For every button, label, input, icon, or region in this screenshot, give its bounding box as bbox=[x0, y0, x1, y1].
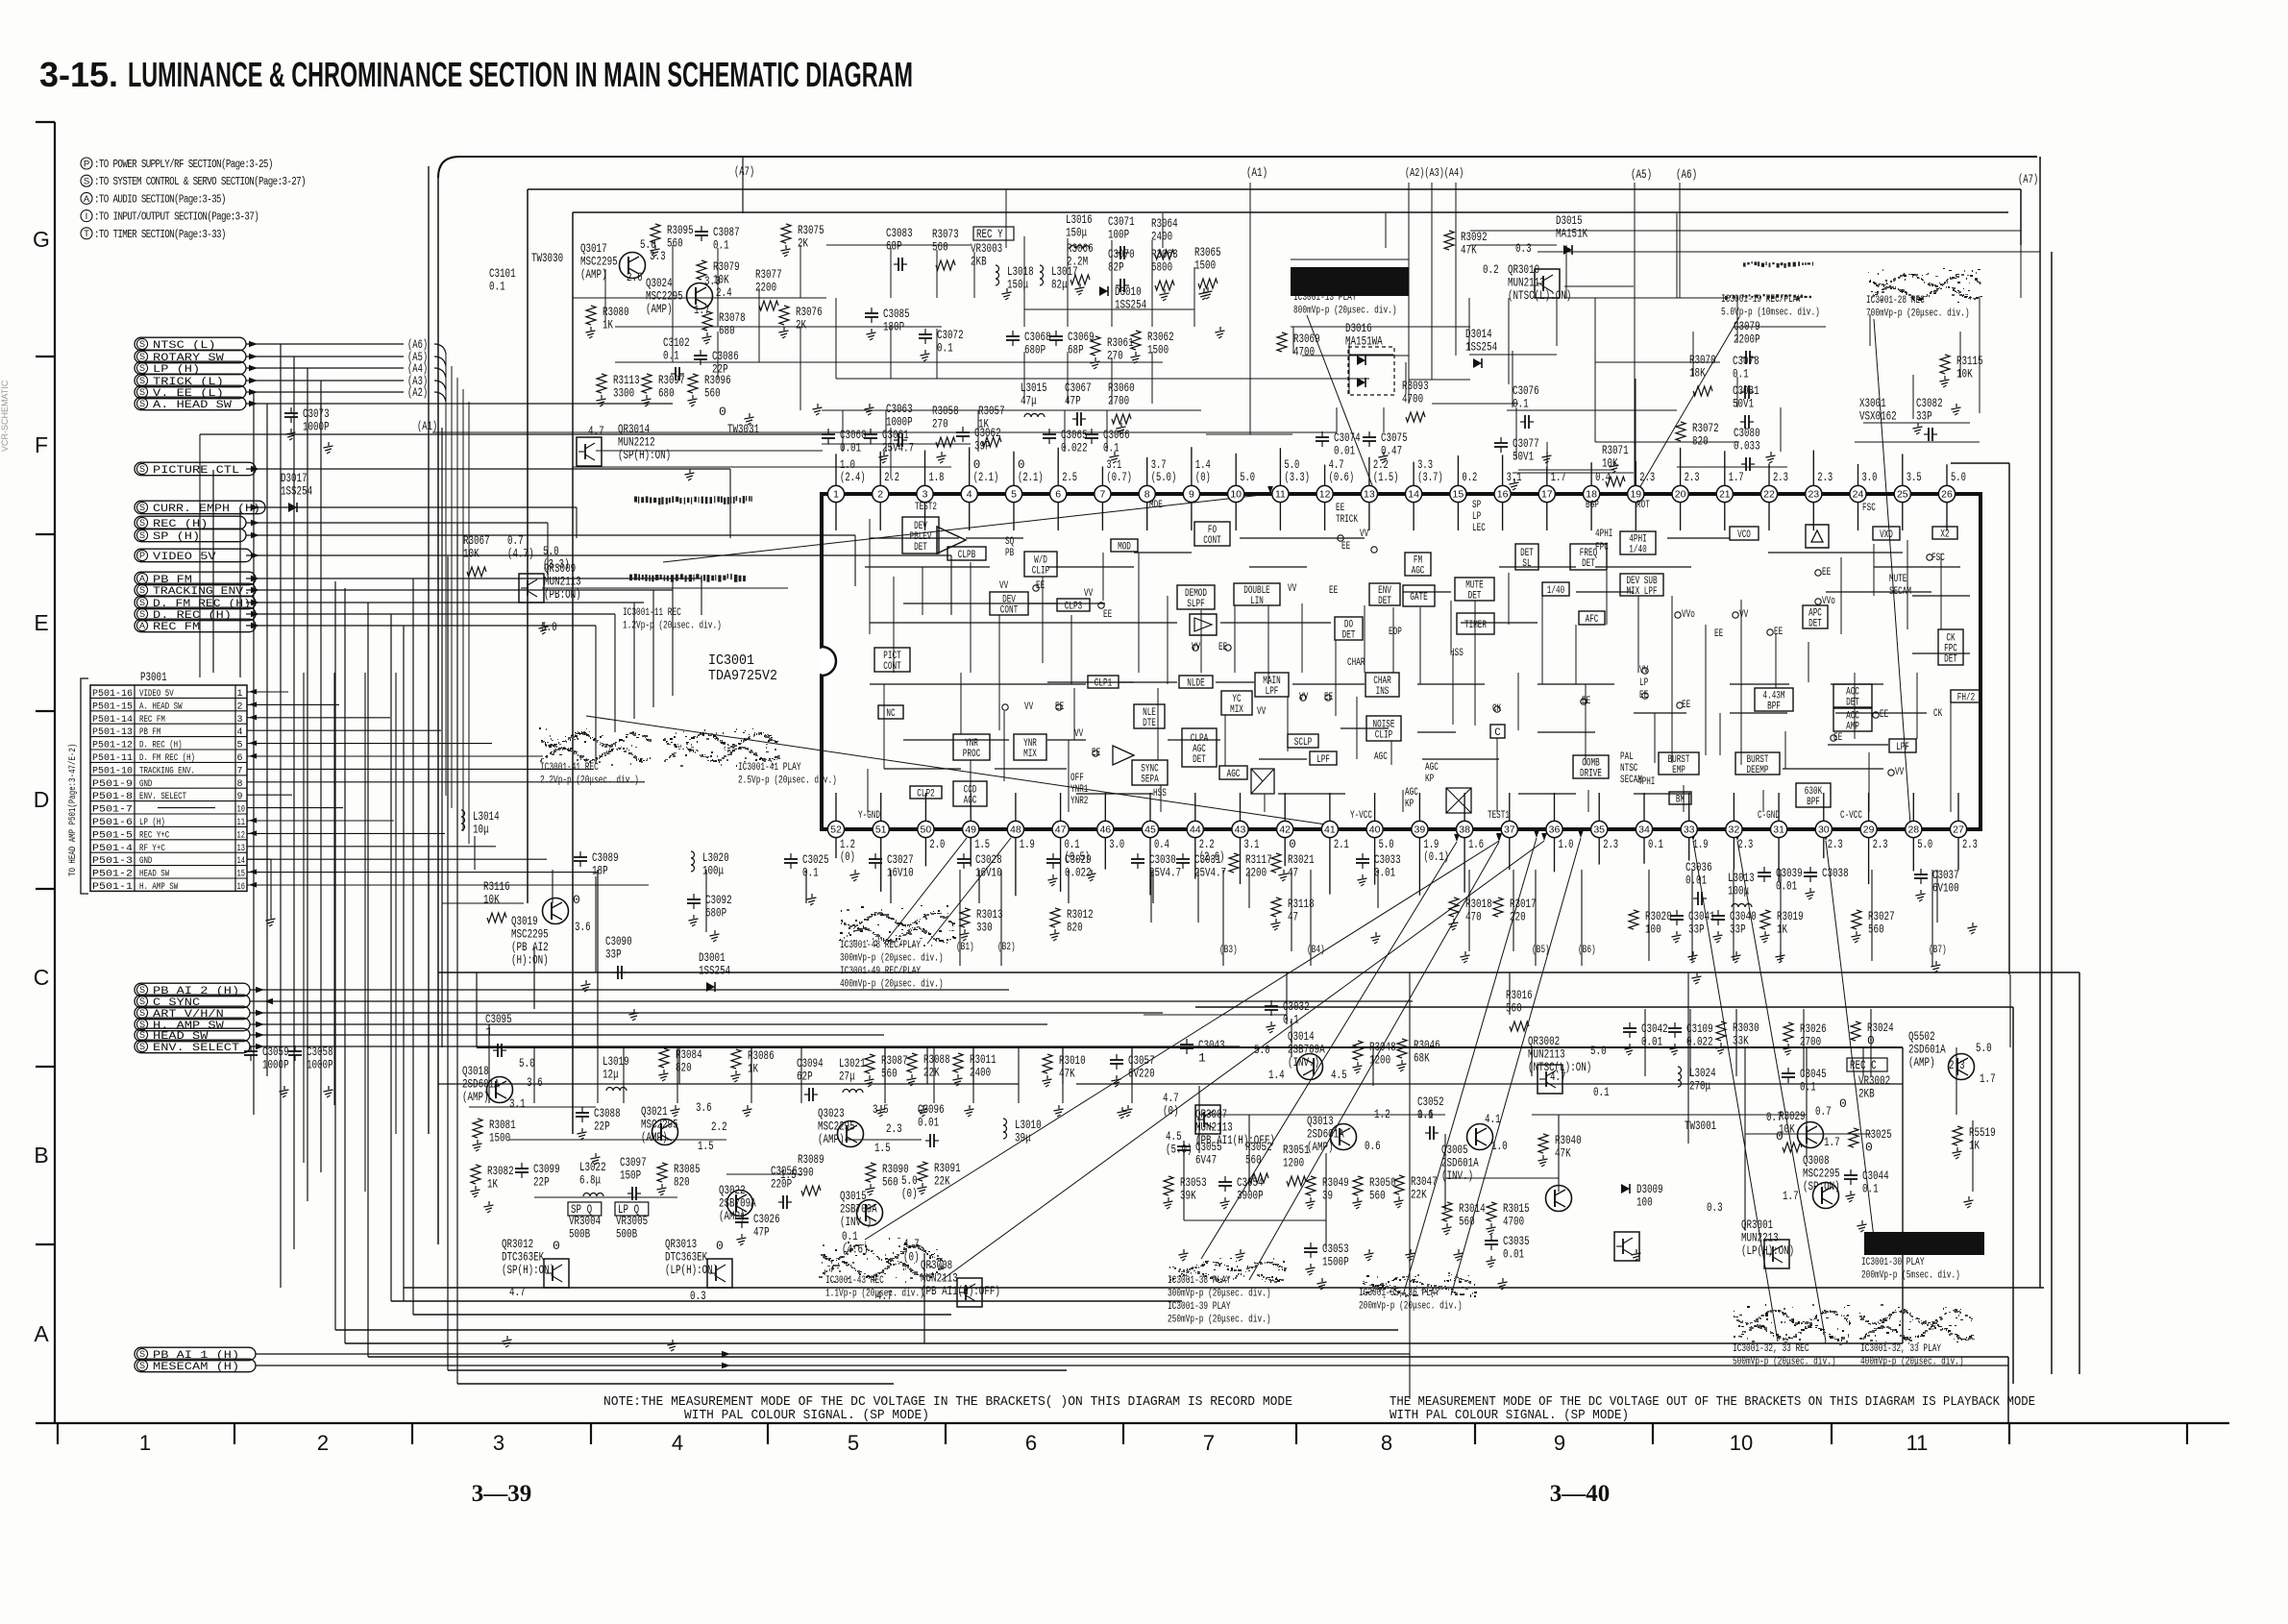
svg-text:68P: 68P bbox=[1068, 343, 1084, 357]
svg-text:CK: CK bbox=[1933, 708, 1943, 720]
svg-text:5: 5 bbox=[1011, 489, 1017, 501]
svg-text:560: 560 bbox=[1868, 923, 1884, 937]
svg-text:VV: VV bbox=[999, 580, 1009, 592]
svg-text:ROT: ROT bbox=[1636, 500, 1650, 511]
svg-text:820: 820 bbox=[1067, 921, 1083, 935]
svg-text:AGC: AGC bbox=[1193, 744, 1206, 755]
svg-text:25: 25 bbox=[1897, 489, 1908, 501]
svg-text:0: 0 bbox=[553, 1239, 560, 1253]
svg-text:2KB: 2KB bbox=[1858, 1087, 1875, 1101]
svg-text:2.3: 2.3 bbox=[1737, 838, 1753, 851]
svg-text:2.5: 2.5 bbox=[1062, 471, 1077, 484]
svg-text:(3.7): (3.7) bbox=[1417, 471, 1443, 484]
svg-text:62P: 62P bbox=[797, 1070, 813, 1084]
svg-text:IC3001-48 REC/PLAY: IC3001-48 REC/PLAY bbox=[840, 940, 921, 951]
svg-text:6V100: 6V100 bbox=[1932, 881, 1959, 896]
svg-text:(B6): (B6) bbox=[1578, 945, 1596, 956]
svg-text:47: 47 bbox=[1288, 910, 1298, 924]
svg-text:CLIP: CLIP bbox=[1032, 566, 1049, 578]
svg-text:OFF: OFF bbox=[1070, 773, 1084, 784]
svg-text:1.6: 1.6 bbox=[1468, 838, 1484, 851]
svg-text:2700: 2700 bbox=[1108, 394, 1129, 408]
svg-text:REC Y: REC Y bbox=[976, 227, 1003, 241]
svg-text:4: 4 bbox=[672, 1431, 683, 1455]
svg-text:S: S bbox=[139, 376, 145, 385]
svg-text:6V47: 6V47 bbox=[1195, 1153, 1217, 1168]
svg-text:180P: 180P bbox=[883, 320, 904, 334]
svg-text:68P: 68P bbox=[886, 239, 902, 254]
svg-text:2200: 2200 bbox=[755, 281, 776, 295]
svg-text:33P: 33P bbox=[1730, 923, 1746, 937]
svg-text:EE: EE bbox=[1055, 701, 1064, 713]
svg-text:EE: EE bbox=[1092, 748, 1100, 759]
svg-text:CLP3: CLP3 bbox=[1065, 602, 1082, 613]
svg-text:(LP(H):ON): (LP(H):ON) bbox=[665, 1263, 718, 1277]
svg-text:ART V/H/N: ART V/H/N bbox=[153, 1009, 224, 1021]
svg-text:3.6: 3.6 bbox=[696, 1100, 712, 1115]
svg-text:1: 1 bbox=[1198, 1051, 1206, 1066]
svg-text:0.1: 0.1 bbox=[1862, 1182, 1879, 1196]
svg-text:VV: VV bbox=[1288, 583, 1297, 595]
svg-text:EMP: EMP bbox=[1672, 765, 1685, 776]
svg-text:36: 36 bbox=[1549, 824, 1561, 836]
svg-text:38: 38 bbox=[1459, 824, 1470, 836]
svg-text:3.6: 3.6 bbox=[527, 1075, 543, 1090]
svg-text:IC3001-41 PLAY: IC3001-41 PLAY bbox=[738, 762, 801, 774]
svg-text:MUTE: MUTE bbox=[1465, 579, 1483, 591]
svg-text:4700: 4700 bbox=[1293, 345, 1315, 359]
svg-text:AGC: AGC bbox=[1405, 787, 1418, 799]
svg-text:820: 820 bbox=[1692, 434, 1709, 449]
svg-text:44: 44 bbox=[1190, 824, 1201, 836]
svg-text:S: S bbox=[139, 530, 145, 540]
svg-text:270: 270 bbox=[1107, 349, 1123, 363]
svg-text:FSC: FSC bbox=[1862, 503, 1876, 514]
svg-text:S: S bbox=[139, 1030, 145, 1040]
svg-text:2400: 2400 bbox=[970, 1066, 991, 1080]
svg-text:VV: VV bbox=[1024, 701, 1034, 713]
svg-text:47P: 47P bbox=[753, 1225, 770, 1240]
svg-text:11: 11 bbox=[1275, 489, 1286, 501]
svg-text:0.1: 0.1 bbox=[1065, 838, 1080, 851]
svg-text:(5.0): (5.0) bbox=[1166, 1143, 1193, 1157]
svg-text:PB FM: PB FM bbox=[153, 575, 192, 586]
svg-text:(0): (0) bbox=[1163, 1104, 1179, 1119]
svg-text:5.0: 5.0 bbox=[1590, 1044, 1607, 1058]
svg-text:12μ: 12μ bbox=[603, 1068, 619, 1082]
svg-text:2: 2 bbox=[317, 1431, 329, 1455]
svg-text:BGP: BGP bbox=[1586, 500, 1599, 511]
svg-text:(SP(H):ON): (SP(H):ON) bbox=[502, 1263, 554, 1277]
svg-text:CONT: CONT bbox=[1000, 605, 1019, 617]
svg-text:EE: EE bbox=[1036, 580, 1045, 592]
svg-text:1.2: 1.2 bbox=[1374, 1107, 1390, 1121]
svg-text:8: 8 bbox=[1144, 489, 1150, 501]
svg-text:(3.3): (3.3) bbox=[543, 557, 570, 572]
svg-text:560: 560 bbox=[1459, 1215, 1475, 1229]
svg-text:YNR2: YNR2 bbox=[1070, 796, 1088, 807]
svg-text:6.8μ: 6.8μ bbox=[579, 1173, 601, 1188]
svg-text:4PHI: 4PHI bbox=[1629, 533, 1646, 545]
svg-text:10K: 10K bbox=[483, 893, 500, 907]
svg-text:(INV.): (INV.) bbox=[1441, 1169, 1473, 1183]
svg-text:270μ: 270μ bbox=[1689, 1079, 1710, 1094]
svg-text:0.01: 0.01 bbox=[1374, 866, 1395, 880]
svg-text:0.1: 0.1 bbox=[802, 866, 819, 880]
svg-text:S: S bbox=[139, 598, 145, 607]
svg-text:150μ: 150μ bbox=[1066, 226, 1087, 240]
svg-text:EE: EE bbox=[1329, 585, 1338, 597]
svg-text:D. REC (H): D. REC (H) bbox=[153, 610, 232, 622]
svg-text:3.3: 3.3 bbox=[1417, 458, 1433, 472]
svg-text:3—39: 3—39 bbox=[472, 1481, 532, 1507]
svg-text:250mVp-p (20μsec. div.): 250mVp-p (20μsec. div.) bbox=[1168, 1315, 1271, 1326]
svg-text:S: S bbox=[139, 399, 145, 408]
svg-text:150P: 150P bbox=[620, 1169, 641, 1183]
svg-text:(B3): (B3) bbox=[1219, 945, 1238, 956]
svg-text:LP: LP bbox=[1472, 511, 1481, 523]
svg-text:68K: 68K bbox=[1414, 1051, 1430, 1066]
svg-text:PB: PB bbox=[1005, 548, 1015, 559]
svg-text:16: 16 bbox=[237, 882, 246, 893]
svg-text:DET: DET bbox=[1342, 630, 1356, 642]
svg-text:EE: EE bbox=[1639, 690, 1648, 701]
svg-text:29: 29 bbox=[1863, 824, 1875, 836]
svg-text:GATE: GATE bbox=[1410, 592, 1427, 603]
svg-text:FO: FO bbox=[1208, 525, 1217, 536]
svg-text:EE: EE bbox=[1336, 503, 1344, 514]
svg-text:1.5: 1.5 bbox=[874, 1141, 891, 1155]
svg-text:24: 24 bbox=[1853, 489, 1864, 501]
svg-text:C-VCC: C-VCC bbox=[1840, 810, 1862, 822]
svg-text:1.0: 1.0 bbox=[1491, 1139, 1508, 1153]
svg-text:SECAM: SECAM bbox=[1620, 775, 1642, 786]
svg-text:SL: SL bbox=[1522, 558, 1531, 570]
svg-text:DET: DET bbox=[1582, 558, 1595, 570]
svg-text:VV: VV bbox=[1739, 609, 1749, 621]
svg-text:VSX0162: VSX0162 bbox=[1859, 409, 1897, 424]
svg-text:CLP1: CLP1 bbox=[1095, 678, 1112, 690]
svg-text:1.9: 1.9 bbox=[1423, 838, 1439, 851]
svg-text:0.1: 0.1 bbox=[713, 238, 729, 253]
svg-text:(B2): (B2) bbox=[997, 942, 1016, 953]
svg-text:50V1: 50V1 bbox=[1733, 397, 1754, 411]
svg-text:5.0: 5.0 bbox=[1254, 1043, 1270, 1057]
svg-text:52: 52 bbox=[830, 824, 842, 836]
svg-text:ACC: ACC bbox=[1846, 710, 1859, 722]
svg-text:1K: 1K bbox=[603, 318, 613, 332]
svg-text:22: 22 bbox=[1763, 489, 1775, 501]
svg-text:TO HEAD AMP P501(Page:3-47/E-2: TO HEAD AMP P501(Page:3-47/E-2) bbox=[67, 744, 79, 876]
svg-text:2400: 2400 bbox=[1151, 230, 1172, 244]
svg-text:PROC: PROC bbox=[963, 749, 981, 760]
svg-text:(4.7): (4.7) bbox=[507, 547, 534, 561]
svg-text:33P: 33P bbox=[1688, 923, 1705, 937]
svg-text:APC: APC bbox=[1808, 607, 1822, 619]
svg-text:S: S bbox=[139, 1361, 145, 1370]
svg-text:CK: CK bbox=[1946, 632, 1956, 644]
svg-text:4.43M: 4.43M bbox=[1763, 690, 1785, 701]
svg-text:18P: 18P bbox=[592, 864, 608, 878]
svg-text:IC3001-11 REC: IC3001-11 REC bbox=[623, 607, 681, 619]
svg-text:S: S bbox=[139, 1042, 145, 1051]
svg-text:2.2: 2.2 bbox=[1199, 838, 1215, 851]
svg-text:2K: 2K bbox=[796, 318, 806, 332]
svg-text:400mVp-p (20μsec. div.): 400mVp-p (20μsec. div.) bbox=[840, 979, 944, 991]
svg-text:1K: 1K bbox=[1777, 923, 1787, 937]
svg-text:560: 560 bbox=[704, 386, 721, 401]
svg-text:1000P: 1000P bbox=[303, 420, 330, 434]
svg-text:X2: X2 bbox=[1940, 529, 1949, 541]
svg-text:6800: 6800 bbox=[1151, 260, 1172, 275]
svg-text:MIX: MIX bbox=[1230, 704, 1243, 716]
svg-text:3.5: 3.5 bbox=[1907, 471, 1922, 484]
svg-text:1.2Vp-p (20μsec. div.): 1.2Vp-p (20μsec. div.) bbox=[623, 621, 722, 632]
svg-text:0.1: 0.1 bbox=[489, 280, 505, 294]
svg-text:IC3001-49 REC/PLAY: IC3001-49 REC/PLAY bbox=[840, 966, 921, 977]
svg-text:22K: 22K bbox=[1411, 1188, 1427, 1202]
svg-text:(3.3): (3.3) bbox=[1284, 471, 1310, 484]
svg-text:INS: INS bbox=[1376, 686, 1390, 698]
svg-text:EE: EE bbox=[1833, 732, 1842, 744]
svg-text:DTE: DTE bbox=[1143, 718, 1156, 729]
svg-text:PBLEV: PBLEV bbox=[910, 531, 932, 543]
svg-text:Y-GND: Y-GND bbox=[858, 810, 880, 822]
svg-text:0: 0 bbox=[1839, 1096, 1847, 1111]
svg-text:1.4: 1.4 bbox=[1268, 1068, 1285, 1082]
svg-text:1200: 1200 bbox=[1369, 1053, 1390, 1068]
svg-text:(AMP): (AMP) bbox=[641, 1130, 668, 1144]
svg-text:14: 14 bbox=[1408, 489, 1419, 501]
svg-text:VVo: VVo bbox=[1822, 596, 1835, 607]
svg-text:43: 43 bbox=[1235, 824, 1246, 836]
svg-text:31: 31 bbox=[1773, 824, 1784, 836]
svg-text:42: 42 bbox=[1279, 824, 1291, 836]
svg-text:BURST: BURST bbox=[1668, 754, 1690, 766]
svg-text:IC3001: IC3001 bbox=[708, 653, 754, 669]
svg-text:200mVp-p (20μsec. div.): 200mVp-p (20μsec. div.) bbox=[1359, 1301, 1463, 1313]
svg-text:EE: EE bbox=[1341, 541, 1350, 553]
svg-text:DET: DET bbox=[1846, 698, 1859, 709]
svg-text:FPC: FPC bbox=[1595, 542, 1609, 554]
svg-text:0.01: 0.01 bbox=[918, 1116, 939, 1130]
svg-text:(SP(H):ON): (SP(H):ON) bbox=[618, 448, 671, 462]
svg-text:0.6: 0.6 bbox=[1365, 1139, 1381, 1153]
svg-text:C: C bbox=[34, 965, 50, 990]
svg-text:560: 560 bbox=[1506, 1001, 1522, 1016]
svg-text:0.4: 0.4 bbox=[1154, 838, 1169, 851]
svg-text:560: 560 bbox=[667, 236, 683, 251]
svg-text:V. EE (L): V. EE (L) bbox=[153, 388, 224, 400]
svg-text:400mVp-p (20μsec. div.): 400mVp-p (20μsec. div.) bbox=[1860, 1357, 1964, 1368]
svg-text:3.0: 3.0 bbox=[1109, 838, 1124, 851]
svg-text:2700: 2700 bbox=[1800, 1035, 1821, 1049]
svg-text:6: 6 bbox=[1055, 489, 1061, 501]
svg-text:3.7: 3.7 bbox=[1151, 458, 1167, 472]
svg-text:D. FM REC (H): D. FM REC (H) bbox=[153, 599, 251, 610]
svg-text:0.01: 0.01 bbox=[840, 441, 861, 455]
svg-text:P: P bbox=[84, 159, 89, 169]
svg-text:35: 35 bbox=[1593, 824, 1605, 836]
svg-text:S: S bbox=[139, 363, 145, 373]
svg-text:TEST2: TEST2 bbox=[915, 502, 937, 513]
svg-text:(0.1): (0.1) bbox=[1423, 850, 1449, 864]
svg-text:KP: KP bbox=[1425, 774, 1434, 785]
svg-text:0.1: 0.1 bbox=[1593, 1085, 1610, 1099]
svg-text:0.01: 0.01 bbox=[1503, 1247, 1524, 1262]
svg-text:7: 7 bbox=[1099, 489, 1105, 501]
svg-text:560: 560 bbox=[882, 1175, 898, 1190]
svg-text:(AMP): (AMP) bbox=[646, 302, 673, 316]
svg-text:0.2: 0.2 bbox=[1462, 471, 1477, 484]
svg-text:39P: 39P bbox=[974, 439, 991, 454]
svg-text:19: 19 bbox=[1630, 489, 1641, 501]
svg-text:VV: VV bbox=[1299, 692, 1309, 703]
svg-text:AGC: AGC bbox=[1227, 769, 1241, 780]
svg-text:0.2: 0.2 bbox=[1483, 262, 1499, 277]
svg-text:2.0: 2.0 bbox=[929, 838, 945, 851]
svg-text:11: 11 bbox=[1907, 1431, 1929, 1455]
svg-text:S: S bbox=[139, 585, 145, 595]
svg-text:150μ: 150μ bbox=[1007, 278, 1028, 292]
svg-text:MA151K: MA151K bbox=[1556, 227, 1587, 241]
svg-text:21: 21 bbox=[1719, 489, 1731, 501]
svg-text:(PB:ON): (PB:ON) bbox=[544, 587, 581, 602]
svg-text:1.5: 1.5 bbox=[698, 1139, 714, 1153]
svg-text:D: D bbox=[34, 787, 50, 812]
svg-text:1.8: 1.8 bbox=[929, 471, 945, 484]
svg-text:0.1: 0.1 bbox=[1733, 367, 1749, 381]
svg-text:40: 40 bbox=[1369, 824, 1381, 836]
svg-text:1SS254: 1SS254 bbox=[281, 484, 312, 499]
svg-text:10K: 10K bbox=[713, 273, 729, 287]
svg-text:CONT: CONT bbox=[883, 661, 901, 673]
svg-text:1.7: 1.7 bbox=[1980, 1071, 1996, 1086]
svg-text:1.7: 1.7 bbox=[1824, 1135, 1840, 1149]
svg-text:30: 30 bbox=[1818, 824, 1830, 836]
svg-text:1K: 1K bbox=[487, 1177, 498, 1192]
svg-text:C-GND: C-GND bbox=[1758, 810, 1780, 822]
svg-text:82P: 82P bbox=[1108, 260, 1124, 275]
svg-text:10K: 10K bbox=[1956, 367, 1973, 381]
svg-text:0.022: 0.022 bbox=[1686, 1035, 1713, 1049]
svg-text:22K: 22K bbox=[934, 1174, 950, 1189]
svg-text:PB AI 1 (H): PB AI 1 (H) bbox=[153, 1350, 239, 1362]
svg-text:500B: 500B bbox=[569, 1227, 590, 1242]
svg-text:EE: EE bbox=[1880, 709, 1888, 721]
svg-text:(A7): (A7) bbox=[2018, 173, 2038, 186]
svg-text:VV: VV bbox=[1895, 767, 1905, 778]
svg-text:VV: VV bbox=[1639, 665, 1649, 677]
svg-text:A: A bbox=[139, 574, 145, 583]
svg-text:0.01: 0.01 bbox=[1776, 879, 1797, 894]
svg-text:47P: 47P bbox=[1065, 394, 1081, 408]
svg-text:(AMP): (AMP) bbox=[462, 1090, 489, 1104]
svg-text:23: 23 bbox=[1808, 489, 1819, 501]
svg-text:300mVp-p (20μsec. div.): 300mVp-p (20μsec. div.) bbox=[840, 953, 944, 965]
svg-text:NLE: NLE bbox=[1143, 707, 1156, 719]
svg-text::TO SYSTEM CONTROL & SERVO SEC: :TO SYSTEM CONTROL & SERVO SECTION(Page:… bbox=[94, 176, 306, 188]
svg-text:3.0: 3.0 bbox=[1862, 471, 1878, 484]
svg-text:WITH PAL COLOUR SIGNAL. (SP MO: WITH PAL COLOUR SIGNAL. (SP MODE) bbox=[684, 1409, 929, 1423]
svg-text:SP: SP bbox=[1472, 500, 1481, 511]
svg-text:(A1): (A1) bbox=[417, 420, 437, 433]
svg-text:VIDEO 5V: VIDEO 5V bbox=[153, 552, 216, 563]
svg-text:CLPB: CLPB bbox=[958, 550, 976, 561]
svg-text:EE: EE bbox=[1582, 696, 1590, 707]
svg-text:3.1: 3.1 bbox=[1106, 458, 1121, 472]
svg-text:C3038: C3038 bbox=[1822, 866, 1849, 880]
svg-text:0.1: 0.1 bbox=[663, 349, 679, 363]
svg-text:DET: DET bbox=[1520, 548, 1534, 559]
svg-text:3—40: 3—40 bbox=[1550, 1481, 1611, 1507]
svg-text:2KB: 2KB bbox=[971, 255, 987, 269]
svg-text:1000P: 1000P bbox=[307, 1058, 333, 1072]
svg-text:0.3: 0.3 bbox=[690, 1289, 706, 1303]
svg-text:3.1: 3.1 bbox=[509, 1096, 526, 1111]
svg-text:0: 0 bbox=[716, 1239, 724, 1253]
svg-text:13: 13 bbox=[1364, 489, 1375, 501]
svg-text:0.1: 0.1 bbox=[1283, 1013, 1299, 1027]
svg-text:15: 15 bbox=[1453, 489, 1464, 501]
svg-text:33: 33 bbox=[1684, 824, 1695, 836]
svg-text:4700: 4700 bbox=[1503, 1215, 1524, 1229]
svg-text:EE: EE bbox=[1714, 628, 1723, 640]
svg-text:0.01: 0.01 bbox=[1685, 874, 1707, 888]
svg-text:1SS254: 1SS254 bbox=[1115, 298, 1146, 312]
svg-text:2.3: 2.3 bbox=[1828, 838, 1843, 851]
svg-text:TRICK: TRICK bbox=[1336, 514, 1358, 526]
svg-text:CHAR: CHAR bbox=[1373, 676, 1391, 687]
svg-text:MIX: MIX bbox=[1023, 749, 1037, 760]
svg-text:1.0: 1.0 bbox=[840, 458, 855, 472]
svg-text:A: A bbox=[34, 1321, 49, 1346]
svg-text:LPF: LPF bbox=[1896, 742, 1909, 753]
svg-text:EOP: EOP bbox=[1389, 627, 1402, 638]
svg-text:YNR: YNR bbox=[1023, 738, 1037, 750]
svg-text:MDE: MDE bbox=[1149, 500, 1163, 511]
svg-text:800mVp-p (20μsec. div.): 800mVp-p (20μsec. div.) bbox=[1293, 306, 1397, 317]
svg-text:47K: 47K bbox=[1059, 1067, 1075, 1081]
svg-text:1500: 1500 bbox=[1194, 258, 1216, 273]
svg-text:2.3: 2.3 bbox=[1773, 471, 1788, 484]
svg-text:0.01: 0.01 bbox=[1334, 444, 1355, 458]
svg-text:FH/2: FH/2 bbox=[1957, 693, 1975, 704]
svg-text:LPF: LPF bbox=[1316, 754, 1330, 766]
svg-text:(A2)(A3)(A4): (A2)(A3)(A4) bbox=[1405, 166, 1464, 180]
svg-text:680: 680 bbox=[658, 386, 675, 401]
svg-text:33K: 33K bbox=[1733, 1034, 1749, 1048]
svg-text:(2.4): (2.4) bbox=[840, 471, 866, 484]
svg-text:IC3001-30 PLAY: IC3001-30 PLAY bbox=[1861, 1257, 1925, 1268]
svg-text:DO: DO bbox=[1344, 619, 1353, 630]
svg-text:VVo: VVo bbox=[1682, 609, 1695, 621]
svg-text:DEV: DEV bbox=[914, 521, 927, 532]
svg-text:0.7: 0.7 bbox=[1815, 1104, 1832, 1119]
svg-text:S: S bbox=[139, 352, 145, 361]
svg-text:MA151WA: MA151WA bbox=[1345, 334, 1383, 349]
svg-text:TEST1: TEST1 bbox=[1488, 810, 1510, 822]
svg-text:VV: VV bbox=[1192, 642, 1201, 653]
svg-text:A. HEAD SW: A. HEAD SW bbox=[153, 400, 232, 411]
svg-text:560: 560 bbox=[1245, 1153, 1262, 1168]
svg-text:100P: 100P bbox=[1108, 228, 1129, 242]
svg-text:(A4): (A4) bbox=[407, 362, 428, 376]
svg-text:47K: 47K bbox=[1555, 1146, 1571, 1161]
svg-text:S: S bbox=[139, 387, 145, 397]
svg-text:1500: 1500 bbox=[489, 1131, 510, 1145]
svg-text:DEMOD: DEMOD bbox=[1185, 588, 1207, 600]
